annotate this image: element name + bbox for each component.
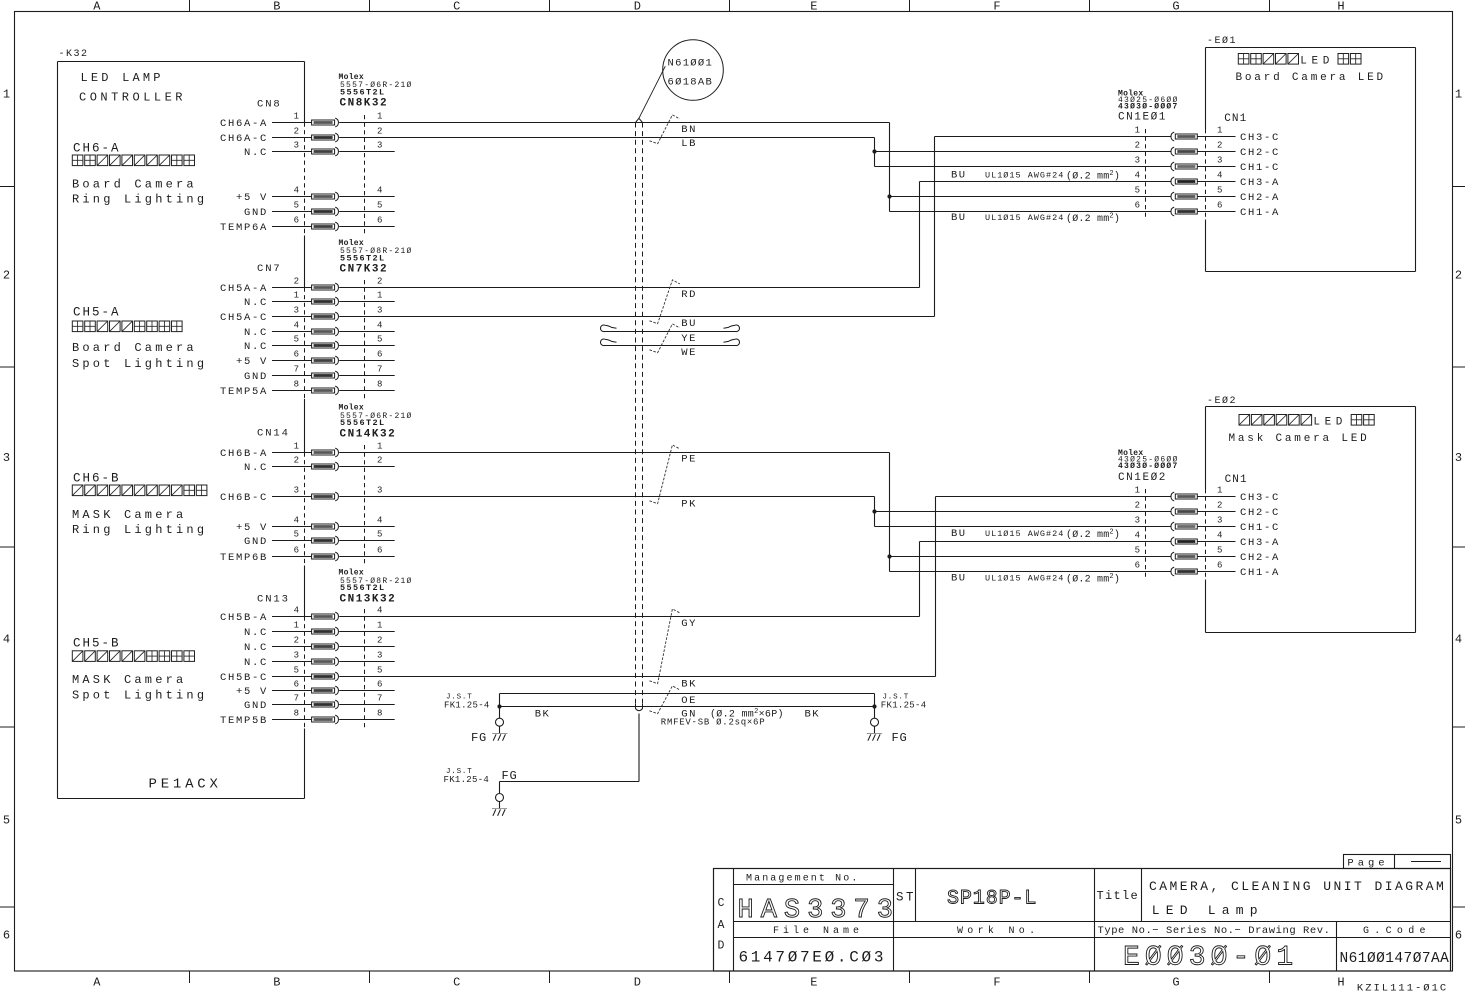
svg-text:-EØ1: -EØ1 xyxy=(1207,35,1237,47)
CN13 pin 3 crimp terminal xyxy=(312,657,339,666)
svg-text:CH2-C: CH2-C xyxy=(1240,147,1280,159)
svg-text:KZIL111-Ø1C: KZIL111-Ø1C xyxy=(1357,983,1448,992)
svg-text:3: 3 xyxy=(3,451,10,465)
svg-text:6Ø18AB: 6Ø18AB xyxy=(668,77,714,89)
svg-text:6: 6 xyxy=(1217,200,1222,210)
connector CN7 label xyxy=(257,239,413,276)
CN1E01 pin 4 crimp terminal xyxy=(1171,177,1197,186)
svg-text:CH3-C: CH3-C xyxy=(1240,492,1280,504)
CN1E01 pin 3 CH1-C xyxy=(1135,155,1280,174)
svg-text:CH6-A: CH6-A xyxy=(73,141,121,155)
svg-text:LED Lamp: LED Lamp xyxy=(1152,903,1264,918)
CN13 pin 3 N.C xyxy=(244,650,382,669)
wire label leader RD BU xyxy=(650,280,680,324)
svg-text:OE: OE xyxy=(681,695,697,707)
svg-text:CN13K32: CN13K32 xyxy=(340,593,397,605)
svg-text:5556T2L: 5556T2L xyxy=(340,583,386,593)
svg-text:CN14K32: CN14K32 xyxy=(340,428,397,440)
svg-text:LB: LB xyxy=(681,138,697,150)
svg-text:GND: GND xyxy=(244,207,268,219)
wire from CN14 pin 6 xyxy=(339,556,395,558)
svg-text:Spot Lighting: Spot Lighting xyxy=(72,357,207,371)
svg-text:B: B xyxy=(273,0,280,14)
svg-text:6147Ø7EØ.CØ3: 6147Ø7EØ.CØ3 xyxy=(739,949,887,967)
channel CH5-B description xyxy=(72,637,207,703)
CN1E01 pin 2 CH2-C xyxy=(1135,140,1280,159)
LED lamp controller unit -K32 xyxy=(58,49,305,799)
svg-text:H: H xyxy=(1337,976,1344,990)
svg-text:2: 2 xyxy=(294,126,299,136)
svg-text:GND: GND xyxy=(244,700,268,712)
wire from CN13 pin 1 xyxy=(339,631,395,633)
CN1E01 pin6 wire xyxy=(890,211,1172,213)
svg-text:4: 4 xyxy=(3,633,10,647)
svg-text:CH6B-C: CH6B-C xyxy=(220,492,268,504)
svg-text:3: 3 xyxy=(1135,155,1140,165)
svg-text:CH5-A: CH5-A xyxy=(73,306,121,320)
svg-text:D: D xyxy=(634,976,641,990)
wire label leader OE GN xyxy=(650,686,680,714)
CN14 pin 2 N.C xyxy=(244,455,382,474)
CN1E02 pin2 wire xyxy=(875,511,1172,513)
svg-text:TEMP6B: TEMP6B xyxy=(220,552,268,564)
CN1E02 pin 4 crimp terminal xyxy=(1171,537,1197,546)
svg-text:N.C: N.C xyxy=(244,642,268,654)
wire from CN7 pin 6 xyxy=(339,360,395,362)
svg-text:Spot Lighting: Spot Lighting xyxy=(72,689,207,703)
CN8 pin 5 GND xyxy=(244,200,382,219)
svg-text:CN7: CN7 xyxy=(257,263,282,275)
wire from CN8 pin 4 xyxy=(339,196,395,198)
svg-text:CONTROLLER: CONTROLLER xyxy=(79,91,186,105)
svg-text:1: 1 xyxy=(294,111,299,121)
svg-text:8: 8 xyxy=(294,379,299,389)
wire from CN8 pin 3 xyxy=(339,151,395,153)
svg-text:EØØ3Ø-Ø1: EØØ3Ø-Ø1 xyxy=(1123,943,1298,974)
CN14 pin 1 CH6B-A xyxy=(220,441,382,460)
spare wire WE coiled xyxy=(601,339,740,346)
svg-text:3: 3 xyxy=(1455,451,1462,465)
E02 title text xyxy=(1229,415,1375,446)
svg-text:CH2-C: CH2-C xyxy=(1240,507,1280,519)
svg-text:3: 3 xyxy=(294,305,299,315)
wire GY CH5B-A to CN1E02 pin4 xyxy=(919,542,921,617)
CN8 pin 1 crimp terminal xyxy=(312,118,339,127)
svg-text:3: 3 xyxy=(1217,515,1222,525)
CN7 pin 8 crimp terminal xyxy=(312,386,339,395)
wire spec label BU UL1015 at E02 pin4 xyxy=(951,528,1120,541)
svg-text:4: 4 xyxy=(294,185,299,195)
wire from CN13 pin 5 xyxy=(339,676,935,678)
CN1E02 pin 2 crimp terminal xyxy=(1171,507,1197,516)
CN8 pin 3 N.C xyxy=(244,140,382,159)
svg-text:TEMP5B: TEMP5B xyxy=(220,715,268,727)
svg-text:Type No.− Series No.− Drawing: Type No.− Series No.− Drawing Rev. xyxy=(1098,925,1331,937)
CN13 pin 6 crimp terminal xyxy=(312,686,339,695)
CN7 pin 6 crimp terminal xyxy=(312,356,339,365)
svg-text:BU: BU xyxy=(951,212,967,224)
LED unit -E01 Board Camera LED box xyxy=(1206,35,1416,272)
svg-text:1: 1 xyxy=(294,620,299,630)
svg-text:4: 4 xyxy=(377,320,382,330)
CN7 pin 2 crimp terminal xyxy=(312,283,339,292)
CN1E01 pin3 wire xyxy=(875,166,1172,168)
svg-text:2: 2 xyxy=(3,269,10,283)
CN8 pin 2 CH6A-C xyxy=(220,126,382,145)
svg-text:3: 3 xyxy=(377,305,382,315)
svg-text:-EØ2: -EØ2 xyxy=(1207,395,1237,407)
CN14 pin 5 GND xyxy=(244,529,382,548)
svg-text:2: 2 xyxy=(1455,269,1462,283)
connector CN1E01 label xyxy=(1118,90,1179,124)
FG terminal left J.S.T FK1.25-4 xyxy=(444,694,507,746)
CN13 pin 4 crimp terminal xyxy=(312,612,339,621)
svg-text:5: 5 xyxy=(377,529,382,539)
wire from CN7 pin 1 xyxy=(339,301,395,303)
wire spec label GN 0.2mm2 x 6P BK xyxy=(681,708,820,721)
svg-text:CN7K32: CN7K32 xyxy=(340,263,389,275)
CN8 pin 1 CH6A-A xyxy=(220,111,382,130)
svg-text:CN8: CN8 xyxy=(257,98,282,110)
svg-text:6: 6 xyxy=(1455,929,1462,943)
CN1E01 pin4 wire xyxy=(920,181,1172,183)
wire from CN7 pin 4 xyxy=(339,331,395,333)
svg-text:CH5A-C: CH5A-C xyxy=(220,312,268,324)
svg-text:CN1EØ2: CN1EØ2 xyxy=(1118,472,1167,484)
CN1E02 pin 5 crimp terminal xyxy=(1171,552,1197,561)
CN14 pin 6 crimp terminal xyxy=(312,552,339,561)
svg-text:5: 5 xyxy=(1455,814,1462,828)
svg-text:BK: BK xyxy=(535,709,551,721)
connector CN8 boundary dashed lines xyxy=(305,115,365,235)
CN7 pin 8 TEMP5A xyxy=(220,379,382,398)
CN1E01 pin 6 CH1-A xyxy=(1135,200,1280,219)
svg-text:CH1-A: CH1-A xyxy=(1240,567,1280,579)
svg-text:1: 1 xyxy=(3,88,10,102)
connector CN14 boundary dashed lines xyxy=(305,445,365,565)
svg-text:8: 8 xyxy=(377,708,382,718)
svg-text:C: C xyxy=(453,976,460,990)
svg-text:7: 7 xyxy=(294,693,299,703)
svg-text:3: 3 xyxy=(377,140,382,150)
connector CN13 label xyxy=(257,569,413,606)
CN1E02 pin4 wire xyxy=(920,541,1172,543)
svg-text:+5 V: +5 V xyxy=(236,686,268,698)
CN1E01 pin 2 crimp terminal xyxy=(1171,147,1197,156)
wire RD CH5A-A to CN1E01 pin4 xyxy=(919,182,921,288)
CN8 pin 5 crimp terminal xyxy=(312,207,339,216)
svg-text:N.C: N.C xyxy=(244,627,268,639)
svg-text:1: 1 xyxy=(1217,485,1222,495)
svg-text:LED LAMP: LED LAMP xyxy=(81,71,164,85)
CN1E02 pin6 wire xyxy=(890,571,1172,573)
svg-text:6: 6 xyxy=(294,215,299,225)
svg-text:4: 4 xyxy=(1217,530,1222,540)
svg-text:CH2-A: CH2-A xyxy=(1240,552,1280,564)
svg-text:CN13: CN13 xyxy=(257,594,290,606)
harness balloon N61001 6018AB xyxy=(639,40,723,119)
svg-text:5: 5 xyxy=(1135,545,1140,555)
svg-text:1: 1 xyxy=(1455,88,1462,102)
wire from CN7 pin 5 xyxy=(339,345,395,347)
wire from CN7 pin 3 xyxy=(339,316,934,318)
svg-text:PK: PK xyxy=(681,499,697,511)
svg-text:4: 4 xyxy=(1135,170,1140,180)
wire label leader PE PK xyxy=(650,445,680,504)
svg-text:43Ø3Ø-ØØØ7: 43Ø3Ø-ØØØ7 xyxy=(1118,462,1179,471)
svg-text:SP18P-L: SP18P-L xyxy=(947,888,1037,911)
CN1E02 pin3 wire xyxy=(875,526,1172,528)
wire spec label BU UL1015 at E01 pin4 xyxy=(951,170,1120,183)
CN1E02 boundary dashed lines xyxy=(1146,489,1206,580)
svg-text:WE: WE xyxy=(681,347,697,359)
wire from CN14 pin 3 xyxy=(339,496,874,498)
CN1E01 pin1 wire xyxy=(935,136,1172,138)
svg-text:2: 2 xyxy=(1217,500,1222,510)
svg-text:UL1Ø15 AWG#24: UL1Ø15 AWG#24 xyxy=(985,574,1064,584)
svg-text:Ring Lighting: Ring Lighting xyxy=(72,193,207,207)
svg-text:6: 6 xyxy=(294,349,299,359)
controller box right edge xyxy=(304,62,306,799)
CN1E01 pin 4 CH3-A xyxy=(1135,170,1280,189)
svg-text:4: 4 xyxy=(377,515,382,525)
svg-text:BK: BK xyxy=(681,679,697,691)
svg-text:1: 1 xyxy=(377,441,382,451)
svg-text:43Ø3Ø-ØØØ7: 43Ø3Ø-ØØØ7 xyxy=(1118,102,1179,111)
svg-text:3: 3 xyxy=(377,485,382,495)
svg-text:6: 6 xyxy=(1135,560,1140,570)
svg-text:File Name: File Name xyxy=(773,925,863,937)
svg-text:B: B xyxy=(273,976,280,990)
svg-text:F: F xyxy=(993,0,1000,14)
svg-text:5: 5 xyxy=(294,334,299,344)
wire from CN13 pin 8 xyxy=(339,719,395,721)
svg-text:BU: BU xyxy=(951,573,967,585)
svg-text:Board Camera: Board Camera xyxy=(72,178,197,192)
svg-text:N.C: N.C xyxy=(244,462,268,474)
wire label leader YE WE xyxy=(650,324,680,353)
svg-text:CH5-B: CH5-B xyxy=(73,637,121,651)
CN14 pin 5 crimp terminal xyxy=(312,536,339,545)
svg-text:N61ØØ1: N61ØØ1 xyxy=(668,58,714,70)
svg-text:6: 6 xyxy=(377,215,382,225)
CN13 pin 7 crimp terminal xyxy=(312,700,339,709)
wire from CN13 pin 6 xyxy=(339,690,395,692)
CN1E02 pin 6 CH1-A xyxy=(1135,560,1280,579)
svg-text:D: D xyxy=(718,940,725,953)
svg-text:UL1Ø15 AWG#24: UL1Ø15 AWG#24 xyxy=(985,171,1064,181)
connector CN13 boundary dashed lines xyxy=(305,609,365,728)
svg-text:-K32: -K32 xyxy=(59,49,89,60)
svg-text:A: A xyxy=(718,919,725,932)
svg-text:Ring Lighting: Ring Lighting xyxy=(72,523,207,537)
wire from CN14 pin 4 xyxy=(339,526,395,528)
CN14 pin 6 TEMP6B xyxy=(220,545,382,564)
svg-text:2: 2 xyxy=(294,276,299,286)
connector CN1E02 label xyxy=(1118,449,1179,484)
wire spec label BU UL1015 at E02 pin6 xyxy=(951,573,1120,586)
CN8 pin 3 crimp terminal xyxy=(312,147,339,156)
wire from CN13 pin 7 xyxy=(339,704,395,706)
svg-text:N.C: N.C xyxy=(244,327,268,339)
CN8 pin 4 crimp terminal xyxy=(312,192,339,201)
svg-text:2: 2 xyxy=(294,455,299,465)
svg-text:ST: ST xyxy=(896,891,916,905)
cable crossing dashed boundary xyxy=(636,118,643,710)
wire from CN14 pin 5 xyxy=(339,540,395,542)
svg-text:H: H xyxy=(1337,0,1344,14)
CN7 pin 3 crimp terminal xyxy=(312,312,339,321)
CN13 pin 8 crimp terminal xyxy=(312,715,339,724)
svg-text:G: G xyxy=(1172,0,1179,14)
svg-text:CH3-C: CH3-C xyxy=(1240,132,1280,144)
svg-text:LED: LED xyxy=(1300,56,1334,68)
svg-text:1: 1 xyxy=(1135,485,1140,495)
CN1E02 pin 1 CH3-C xyxy=(1135,485,1280,504)
svg-text:7: 7 xyxy=(377,364,382,374)
svg-text:1: 1 xyxy=(377,620,382,630)
CN1E02 pin 4 CH3-A xyxy=(1135,530,1280,549)
svg-text:5: 5 xyxy=(377,200,382,210)
svg-text:2: 2 xyxy=(377,126,382,136)
CN7 pin 7 crimp terminal xyxy=(312,371,339,380)
svg-text:6: 6 xyxy=(294,679,299,689)
CN7 pin 4 crimp terminal xyxy=(312,327,339,336)
title block xyxy=(714,855,1451,974)
svg-text:CH1-C: CH1-C xyxy=(1240,522,1280,534)
svg-text:2: 2 xyxy=(1135,500,1140,510)
svg-text:N.C: N.C xyxy=(244,657,268,669)
svg-text:CH1-C: CH1-C xyxy=(1240,162,1280,174)
svg-text:2: 2 xyxy=(1217,140,1222,150)
E02 box left edge solid segments xyxy=(1205,407,1207,633)
CN14 pin 4 +5 V xyxy=(236,515,382,534)
svg-text:4: 4 xyxy=(1217,170,1222,180)
svg-text:N.C: N.C xyxy=(244,147,268,159)
svg-text:LED: LED xyxy=(1313,417,1347,429)
wire from CN7 pin 8 xyxy=(339,390,395,392)
channel CH6-B description xyxy=(72,471,207,537)
svg-text:CH1-A: CH1-A xyxy=(1240,207,1280,219)
svg-text:2: 2 xyxy=(377,635,382,645)
svg-text:6: 6 xyxy=(377,545,382,555)
svg-text:CH5B-C: CH5B-C xyxy=(220,672,268,684)
FG terminal bottom J.S.T FK1.25-4 xyxy=(444,768,518,816)
svg-text:4: 4 xyxy=(377,605,382,615)
CN1E01 pin 6 crimp terminal xyxy=(1171,207,1197,216)
CN1E02 pin1 wire xyxy=(936,496,1172,498)
svg-text:FK1.25-4: FK1.25-4 xyxy=(444,701,490,711)
svg-text:BN: BN xyxy=(681,124,697,136)
svg-text:1: 1 xyxy=(377,290,382,300)
svg-text:UL1Ø15 AWG#24: UL1Ø15 AWG#24 xyxy=(985,213,1064,223)
CN13 pin 4 CH5B-A xyxy=(220,605,382,624)
svg-text:Page: Page xyxy=(1347,857,1388,869)
svg-text:MASK Camera: MASK Camera xyxy=(72,508,186,522)
wire PK CH6B-C to CN1E02 xyxy=(872,497,876,527)
svg-text:BU: BU xyxy=(951,528,967,540)
svg-text:BU: BU xyxy=(951,170,967,182)
svg-text:2: 2 xyxy=(294,635,299,645)
wire from CN13 pin 4 xyxy=(339,616,919,618)
svg-text:3: 3 xyxy=(1217,155,1222,165)
svg-text:F: F xyxy=(993,976,1000,990)
FG terminal right J.S.T FK1.25-4 xyxy=(867,694,927,746)
svg-text:8: 8 xyxy=(294,708,299,718)
wire from CN8 pin 5 xyxy=(339,211,395,213)
svg-text:C: C xyxy=(453,0,460,14)
svg-text:6: 6 xyxy=(3,929,10,943)
svg-text:Work No.: Work No. xyxy=(957,925,1039,937)
svg-text:3: 3 xyxy=(294,485,299,495)
svg-text:G: G xyxy=(1172,976,1179,990)
svg-text:N.C: N.C xyxy=(244,297,268,309)
wire from CN7 pin 7 xyxy=(339,375,395,377)
CN1E02 pin 1 crimp terminal xyxy=(1171,492,1197,501)
wire from CN13 pin 2 xyxy=(339,646,395,648)
svg-text:Mask Camera LED: Mask Camera LED xyxy=(1229,433,1370,445)
CN7 pin 5 N.C xyxy=(244,334,382,353)
svg-text:BK: BK xyxy=(805,709,821,721)
svg-text:4: 4 xyxy=(1455,633,1462,647)
svg-text:Board Camera LED: Board Camera LED xyxy=(1236,72,1386,84)
svg-text:TEMP6A: TEMP6A xyxy=(220,222,268,234)
CN13 pin 1 crimp terminal xyxy=(312,627,339,636)
svg-text:1: 1 xyxy=(1135,125,1140,135)
svg-text:Board Camera: Board Camera xyxy=(72,341,197,355)
CN7 pin 5 crimp terminal xyxy=(312,341,339,350)
channel CH5-A description xyxy=(72,306,207,372)
CN14 pin 4 crimp terminal xyxy=(312,522,339,531)
CN8 pin 6 TEMP6A xyxy=(220,215,382,234)
svg-text:FK1.25-4: FK1.25-4 xyxy=(881,701,927,711)
svg-text:1: 1 xyxy=(377,111,382,121)
svg-text:3: 3 xyxy=(377,650,382,660)
wire PE CH6B-A to CN1E02 xyxy=(887,453,891,572)
CN1E01 pin2 wire xyxy=(875,151,1172,153)
svg-text:5: 5 xyxy=(1217,185,1222,195)
wire from CN13 pin 3 xyxy=(339,661,395,663)
svg-text:7: 7 xyxy=(294,364,299,374)
connector CN8 label xyxy=(257,73,413,110)
svg-text:CH2-A: CH2-A xyxy=(1240,192,1280,204)
svg-text:FG: FG xyxy=(892,731,908,745)
svg-text:4: 4 xyxy=(294,515,299,525)
svg-text:5: 5 xyxy=(1217,545,1222,555)
svg-text:3: 3 xyxy=(294,140,299,150)
CN13 pin 2 crimp terminal xyxy=(312,642,339,651)
wire BK CH5B-C to CN1E02 pin1 xyxy=(935,497,937,677)
cable shield drain wire to FG xyxy=(500,714,640,794)
svg-text:6: 6 xyxy=(377,679,382,689)
CN13 pin 2 N.C xyxy=(244,635,382,654)
svg-text:RD: RD xyxy=(681,289,697,301)
svg-text:GY: GY xyxy=(681,618,697,630)
svg-text:N61ØØ147Ø7AA: N61ØØ147Ø7AA xyxy=(1340,951,1450,967)
svg-text:GND: GND xyxy=(244,536,268,548)
CN1E02 pin 3 CH1-C xyxy=(1135,515,1280,534)
svg-text:8: 8 xyxy=(377,379,382,389)
CN13 pin 1 N.C xyxy=(244,620,382,639)
ground wire GN between FG terminals xyxy=(500,706,875,708)
CN1E02 pin5 wire xyxy=(890,556,1172,558)
CN1E01 pin 1 crimp terminal xyxy=(1171,132,1197,141)
svg-text:MASK Camera: MASK Camera xyxy=(72,673,186,687)
svg-text:CH3-A: CH3-A xyxy=(1240,537,1280,549)
CN14 pin 3 CH6B-C xyxy=(220,485,382,504)
CN7 pin 2 CH5A-A xyxy=(220,276,382,295)
svg-text:4: 4 xyxy=(294,320,299,330)
